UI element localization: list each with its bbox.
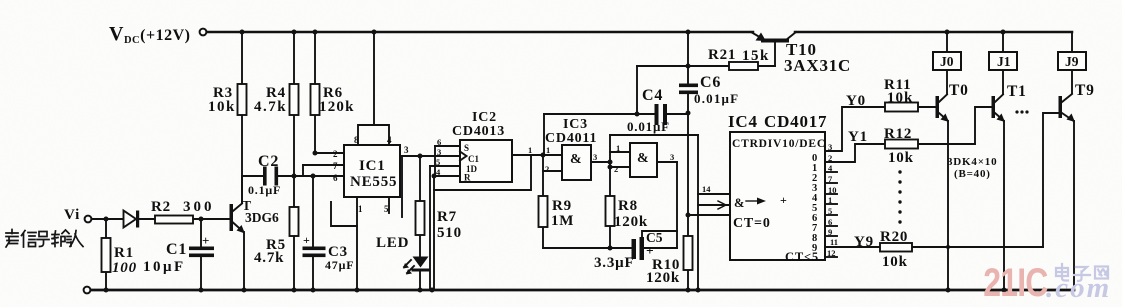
junction C4 node x688 bbox=[686, 111, 691, 116]
svg-text:4.7k: 4.7k bbox=[254, 250, 284, 266]
wire Q node riser to C4 line bbox=[543, 114, 545, 155]
junction rail node x688 bbox=[686, 30, 691, 35]
svg-text:&: & bbox=[570, 152, 582, 167]
svg-text:14: 14 bbox=[702, 184, 711, 194]
wire R6 bottom lead to pin2 line bbox=[314, 115, 316, 153]
wire IC1 pin3 output to IC2 clock bbox=[400, 155, 460, 157]
ellipsis dots after T1 bbox=[1015, 110, 1028, 113]
IC4 output digits bbox=[812, 153, 818, 254]
junction ground R5 bbox=[292, 288, 297, 293]
wire R7 top lead bbox=[419, 156, 421, 201]
junction C3 pin6 bbox=[311, 174, 316, 179]
wire small jog left of pin1 bbox=[331, 202, 357, 226]
IC4 right pin numbers bbox=[827, 142, 838, 258]
svg-text:10k: 10k bbox=[882, 254, 908, 270]
svg-text:C6: C6 bbox=[700, 74, 721, 91]
svg-text:5: 5 bbox=[384, 204, 389, 214]
wire T emitter down to ground bbox=[243, 232, 245, 290]
wire J1 feed from rail bbox=[1002, 32, 1004, 52]
svg-text:J1: J1 bbox=[997, 54, 1011, 69]
junction R6 pin2 bbox=[313, 151, 318, 156]
svg-text:R7: R7 bbox=[437, 209, 457, 225]
resistor R11 body bbox=[885, 103, 918, 112]
junction C2 R4 R5 node bbox=[292, 174, 297, 179]
svg-text:6: 6 bbox=[437, 137, 441, 147]
wire J0 to T0 collector bbox=[946, 70, 948, 94]
wire J9 feed from rail end bbox=[1071, 32, 1073, 52]
svg-text:120k: 120k bbox=[319, 99, 355, 115]
junction ground T0 emitter bbox=[946, 288, 951, 293]
wire R11 to T0 base bbox=[918, 106, 935, 108]
junction rail R3 bbox=[240, 30, 245, 35]
junction R21 node bbox=[686, 64, 691, 69]
wire IC1 pin7 line bbox=[303, 164, 344, 166]
wire IC4 Y1 pin2 jog bbox=[825, 144, 885, 162]
svg-text:3DK4×10: 3DK4×10 bbox=[947, 156, 997, 168]
IC2 clock chevron bbox=[460, 152, 467, 161]
wire C1 bottom lead bbox=[200, 257, 202, 290]
wire diode to R2 bbox=[139, 218, 155, 220]
wire R10 bottom lead bbox=[687, 270, 689, 290]
svg-text:10k: 10k bbox=[888, 150, 914, 166]
junction ground R10 bbox=[686, 288, 691, 293]
wire RC node horizontal to C5 bbox=[543, 247, 631, 249]
wire tie pin7 to pin6 bbox=[302, 165, 304, 176]
wire wrap below IC2 to Q node bbox=[434, 155, 531, 190]
wire IC2 pin4 R line bbox=[434, 175, 460, 177]
wire R1 bottom lead bbox=[105, 272, 107, 290]
svg-text:3: 3 bbox=[593, 152, 597, 162]
junction ground R1 bbox=[104, 288, 109, 293]
transistor T9 bbox=[1059, 94, 1076, 122]
wire IC1 supply jog bbox=[358, 125, 389, 145]
wire R21 right lead bbox=[758, 65, 775, 67]
wire IC1 pin2 line bbox=[315, 152, 344, 154]
svg-text:Y0: Y0 bbox=[846, 93, 866, 109]
svg-text:+: + bbox=[646, 243, 654, 258]
svg-text:.com: .com bbox=[1046, 272, 1111, 304]
svg-text:1: 1 bbox=[828, 195, 832, 205]
junction Vi R1 bbox=[104, 217, 109, 222]
label sound signal input (Chinese) bbox=[6, 230, 83, 248]
svg-text:47μF: 47μF bbox=[325, 258, 354, 272]
wire gate2 output bbox=[658, 161, 677, 163]
wire IC4 carry pin12 stub bbox=[825, 256, 837, 258]
svg-text:R8: R8 bbox=[618, 198, 638, 214]
junction R8 RC node bbox=[608, 246, 613, 251]
wire J1 to T1 collector bbox=[1002, 70, 1004, 94]
wire T0 emitter to ground bbox=[947, 121, 949, 290]
junction pin3 R7 bbox=[418, 154, 423, 159]
wire main node line x688 below C6 bbox=[687, 93, 689, 215]
junction gate1 out bbox=[608, 160, 613, 165]
resistor R12 body bbox=[885, 140, 918, 149]
svg-text:0.01μF: 0.01μF bbox=[627, 119, 670, 134]
wire gate1 in2 jog bbox=[543, 155, 562, 171]
wire R8 bottom lead bbox=[609, 226, 611, 248]
resistor R2 body bbox=[155, 216, 193, 224]
resistor R4 body bbox=[290, 84, 299, 115]
resistor R8 body bbox=[606, 196, 615, 226]
svg-text:3: 3 bbox=[437, 147, 441, 157]
svg-text:2: 2 bbox=[333, 149, 338, 159]
wire R7 to LED bbox=[419, 235, 421, 256]
svg-text:300: 300 bbox=[183, 199, 215, 215]
wire collector riser to C2 bbox=[241, 176, 243, 203]
watermark dianziwang (Chinese) bbox=[1056, 264, 1108, 281]
transistor T10 3AX31C on rail bbox=[751, 32, 796, 43]
relay J9 box bbox=[1058, 52, 1086, 70]
wire R21 left lead line bbox=[637, 65, 729, 67]
wire R2 to transistor T base bbox=[193, 218, 229, 220]
svg-text:9: 9 bbox=[812, 243, 817, 254]
wire riser at 637 to R21 line bbox=[636, 66, 638, 114]
wire C4 line left segment bbox=[544, 113, 654, 115]
wire C3 bottom lead to ground bbox=[312, 257, 314, 290]
wire bottom ground rail bbox=[91, 289, 1074, 292]
svg-text:C2: C2 bbox=[258, 153, 279, 170]
svg-text:1: 1 bbox=[528, 145, 532, 155]
wire IC4 output stubs bbox=[825, 171, 837, 173]
wire +12V top rail left segment bbox=[207, 31, 753, 34]
svg-text:510: 510 bbox=[437, 225, 462, 241]
svg-text:R: R bbox=[464, 173, 471, 183]
wire stub parallel to R7 lead bbox=[401, 156, 403, 217]
junction rail IC1 supply bbox=[372, 30, 377, 35]
wire C2 left lead bbox=[242, 175, 263, 177]
svg-text:100: 100 bbox=[112, 260, 137, 276]
svg-text:10μF: 10μF bbox=[143, 259, 186, 275]
svg-text:VDC(+12V): VDC(+12V) bbox=[109, 23, 190, 46]
resistor R21 body bbox=[729, 62, 758, 70]
svg-text:CD4011: CD4011 bbox=[545, 131, 597, 146]
wire IC1 pin5 stub bbox=[388, 197, 390, 213]
svg-text:R2: R2 bbox=[151, 199, 171, 215]
svg-text:4: 4 bbox=[387, 135, 392, 145]
capacitor C4 plates bbox=[655, 104, 668, 125]
svg-text:R20: R20 bbox=[880, 229, 908, 245]
capacitor C6 plates bbox=[679, 84, 698, 95]
relay J0 box bbox=[933, 52, 961, 70]
wire T9 emitter to ground bbox=[1073, 121, 1075, 290]
wire LED cathode to ground bbox=[419, 271, 421, 290]
wire +12V top rail right segment (after T10) bbox=[795, 31, 1072, 34]
IC2 CD4013 box bbox=[460, 140, 512, 182]
wire 1D vertical to ground bbox=[429, 166, 431, 290]
svg-text:C4: C4 bbox=[642, 87, 663, 104]
svg-text:120k: 120k bbox=[646, 270, 680, 286]
svg-text:S: S bbox=[464, 143, 469, 153]
junction ground IC1 pin1 bbox=[355, 288, 360, 293]
junction rail J0 bbox=[945, 30, 950, 35]
wire IC2 pin1 Q to gate1 input bbox=[512, 154, 562, 156]
svg-text:J9: J9 bbox=[1065, 54, 1079, 69]
svg-text:T1: T1 bbox=[1007, 83, 1027, 100]
svg-text:&: & bbox=[637, 151, 649, 166]
IC3 gate1 box bbox=[562, 145, 591, 180]
svg-text:10k: 10k bbox=[887, 90, 913, 106]
svg-text:+: + bbox=[202, 233, 210, 248]
resistor R5 body bbox=[290, 207, 299, 236]
resistor R3 body bbox=[238, 84, 247, 115]
wire IC1 pin6 line bbox=[294, 175, 344, 177]
wire T1 base riser bbox=[975, 107, 991, 144]
capacitor C5 plates bbox=[632, 237, 645, 260]
wire C1 top lead bbox=[200, 219, 202, 246]
junction rail R4 bbox=[292, 30, 297, 35]
svg-text:9: 9 bbox=[828, 227, 832, 237]
wire J0 feed from rail bbox=[946, 32, 948, 52]
resistor R9 body bbox=[539, 196, 548, 227]
wire IC4 pin14 line bbox=[698, 193, 730, 195]
relay J1 box bbox=[989, 52, 1017, 70]
junction rail R6 bbox=[313, 30, 318, 35]
svg-text:6: 6 bbox=[828, 217, 832, 227]
svg-text:NE555: NE555 bbox=[350, 174, 397, 190]
svg-text:7: 7 bbox=[333, 161, 338, 171]
wire IC4 Y0 pin3 jog bbox=[825, 107, 885, 151]
wire R20 to T9 riser bbox=[912, 246, 1043, 248]
junction ground IC2 returns bbox=[430, 288, 435, 293]
svg-text:LED: LED bbox=[376, 235, 409, 251]
IC4 internal clock arrow bbox=[746, 198, 766, 205]
IC3 gate2 box bbox=[630, 143, 657, 177]
junction C4 line riser bbox=[635, 112, 640, 117]
LED symbol bbox=[403, 257, 430, 275]
wire R4 bottom lead to node bbox=[293, 115, 295, 176]
wire gate2 input tie vertical bbox=[609, 135, 611, 196]
svg-text:2: 2 bbox=[545, 164, 549, 174]
svg-text:R21: R21 bbox=[708, 47, 736, 63]
svg-text:Vi: Vi bbox=[64, 207, 80, 223]
junction ground T emitter bbox=[242, 288, 247, 293]
wire T1 emitter to ground bbox=[1003, 121, 1005, 290]
terminal ground-left open circle bbox=[84, 287, 91, 294]
wire R9 top lead bbox=[542, 171, 544, 196]
IC1 NE555 box bbox=[344, 145, 400, 197]
wire R3 bottom lead to collector node bbox=[241, 115, 243, 203]
wire IC4 Y9 pin11 line bbox=[825, 246, 880, 248]
junction ground C3 bbox=[311, 288, 316, 293]
resistor R10 body bbox=[684, 236, 693, 270]
junction ground C1 bbox=[199, 288, 204, 293]
wire T9 base riser bbox=[1043, 113, 1058, 247]
svg-text:5: 5 bbox=[828, 206, 832, 216]
svg-text:T0: T0 bbox=[949, 82, 969, 99]
wire C5 right plate top jog bbox=[642, 231, 677, 237]
svg-text:120k: 120k bbox=[614, 214, 648, 230]
junction IC2 R pin bbox=[432, 174, 437, 179]
junction Q node bbox=[541, 153, 546, 158]
wire C2 right lead bbox=[278, 175, 294, 177]
svg-text:2: 2 bbox=[828, 153, 832, 163]
wire R10 top lead bbox=[687, 215, 689, 236]
wire IC1 supply riser from rail bbox=[373, 32, 375, 125]
svg-text:3.3μF: 3.3μF bbox=[594, 255, 634, 271]
junction rail J1 bbox=[1001, 30, 1006, 35]
terminal Vi open circle bbox=[85, 216, 92, 223]
wire R4 top lead from rail bbox=[293, 32, 295, 84]
svg-text:+: + bbox=[780, 193, 788, 207]
svg-text:T9: T9 bbox=[1075, 82, 1095, 99]
svg-text:0.1μF: 0.1μF bbox=[248, 183, 281, 197]
svg-text:5: 5 bbox=[436, 157, 440, 167]
wire Vi input to diode bbox=[91, 218, 122, 220]
junction reset line x688 bbox=[686, 213, 691, 218]
resistor R1 body bbox=[102, 238, 111, 272]
svg-text:CD4017: CD4017 bbox=[764, 112, 827, 131]
wire clock drop x698 to ground bbox=[697, 135, 699, 290]
svg-text:3AX31C: 3AX31C bbox=[784, 56, 851, 75]
junction ground LED bbox=[418, 288, 423, 293]
transistor T 3DG6 bbox=[230, 204, 246, 234]
svg-text:1: 1 bbox=[616, 143, 620, 153]
wire R6 top lead from rail bbox=[314, 32, 316, 84]
IC4 CD4017 box bbox=[730, 132, 825, 260]
capacitor C2 plates bbox=[263, 167, 278, 186]
svg-text:Y1: Y1 bbox=[848, 129, 868, 145]
transistor T0 bbox=[936, 95, 950, 123]
wire gate2 output drop bbox=[676, 162, 678, 248]
junction R2 C1 bbox=[199, 217, 204, 222]
svg-text:1: 1 bbox=[546, 145, 550, 155]
svg-text:11: 11 bbox=[830, 237, 838, 247]
wire C4 line right segment bbox=[667, 113, 688, 115]
wire R5 bottom lead to ground bbox=[293, 236, 295, 290]
wire IC1 pin1 to ground bbox=[356, 197, 358, 290]
svg-text:R12: R12 bbox=[884, 126, 912, 142]
wire gate2 in2 bbox=[610, 166, 631, 168]
wire gate2 in1 bbox=[610, 151, 631, 153]
svg-text:IC2: IC2 bbox=[472, 110, 497, 125]
wire R1 top lead bbox=[105, 219, 107, 238]
svg-text:R9: R9 bbox=[552, 198, 572, 214]
wire IC4 reset line bbox=[688, 214, 730, 216]
resistor R7 body bbox=[416, 201, 425, 235]
svg-text:CTRDIV10/DEC: CTRDIV10/DEC bbox=[732, 138, 826, 150]
svg-text:1: 1 bbox=[358, 204, 363, 214]
svg-text:0.01μF: 0.01μF bbox=[694, 91, 739, 106]
wire R9 bottom lead bbox=[542, 227, 544, 248]
ellipsis dots below R12 bbox=[898, 170, 901, 223]
resistor R20 body bbox=[880, 243, 912, 252]
wire IC2 pin5 1D line bbox=[430, 165, 460, 167]
svg-text:J0: J0 bbox=[940, 54, 954, 69]
svg-text:15k: 15k bbox=[742, 48, 770, 64]
wire R12 to T1 riser bbox=[918, 143, 975, 145]
svg-text:IC4: IC4 bbox=[728, 112, 758, 131]
wire node to R5 bbox=[293, 176, 295, 207]
wire C5 right lead bottom bbox=[644, 247, 677, 249]
svg-text:C1: C1 bbox=[468, 154, 479, 164]
terminal VDC open circle bbox=[200, 29, 207, 36]
wire J9 to T9 collector bbox=[1071, 70, 1073, 93]
capacitor C3 electrolytic plates bbox=[303, 247, 326, 258]
svg-text:6: 6 bbox=[333, 173, 338, 183]
svg-text:&: & bbox=[734, 196, 745, 210]
wire to IC4 clock horizontal bbox=[610, 134, 698, 136]
svg-text:CD4013: CD4013 bbox=[452, 124, 505, 139]
junction ground x698 bbox=[696, 288, 701, 293]
wire gate1 output bbox=[591, 161, 610, 163]
svg-text:+: + bbox=[303, 233, 311, 247]
wire main node line x688 upper bbox=[687, 32, 689, 84]
wire tie S to R bbox=[434, 146, 436, 176]
svg-text:10: 10 bbox=[828, 185, 837, 195]
svg-text:10k: 10k bbox=[208, 99, 236, 115]
svg-text:4.7k: 4.7k bbox=[254, 99, 287, 115]
svg-text:3: 3 bbox=[404, 145, 409, 155]
wire R vertical to ground bbox=[433, 176, 435, 290]
svg-text:1M: 1M bbox=[551, 213, 574, 229]
transistor T1 bbox=[992, 95, 1006, 123]
wire IC4 clock line bbox=[698, 204, 730, 206]
svg-text:3: 3 bbox=[828, 142, 832, 152]
svg-text:2: 2 bbox=[614, 164, 618, 174]
svg-text:(B=40): (B=40) bbox=[954, 168, 991, 180]
junction Y9 wire T0 emitter cross bbox=[946, 245, 950, 249]
svg-text:IC1: IC1 bbox=[359, 158, 386, 174]
svg-text:3: 3 bbox=[670, 152, 674, 162]
wire IC2 pin6 S line bbox=[435, 145, 460, 147]
svg-text:C1: C1 bbox=[166, 241, 187, 258]
capacitor C1 electrolytic plates bbox=[189, 247, 214, 258]
IC4 clock edge triangle bbox=[718, 201, 726, 209]
svg-text:Y9: Y9 bbox=[854, 234, 874, 250]
svg-text:8: 8 bbox=[354, 135, 359, 145]
svg-text:R1: R1 bbox=[114, 245, 134, 261]
diode D input bbox=[124, 211, 140, 228]
wire T10 base riser bbox=[774, 42, 776, 66]
svg-text:IC3: IC3 bbox=[563, 117, 588, 132]
svg-text:12: 12 bbox=[827, 248, 836, 258]
wire R3 top lead from rail bbox=[241, 32, 243, 84]
svg-text:CT=0: CT=0 bbox=[733, 216, 771, 231]
svg-text:21IC: 21IC bbox=[983, 260, 1048, 305]
resistor R6 body bbox=[311, 84, 320, 115]
svg-text:3DG6: 3DG6 bbox=[245, 210, 279, 225]
junction ground T1 emitter bbox=[1002, 288, 1007, 293]
junction gate2 in2 bbox=[608, 165, 613, 170]
wire C3 top lead bbox=[312, 176, 314, 246]
